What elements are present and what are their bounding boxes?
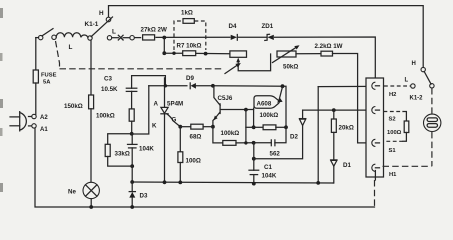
connector X mark between K1-1 and 27k	[118, 35, 123, 40]
svg-text:R7 10kΩ: R7 10kΩ	[177, 43, 202, 50]
svg-text:33kΩ: 33kΩ	[115, 151, 130, 158]
svg-text:L: L	[112, 29, 116, 36]
resistor 33k branch	[108, 134, 132, 145]
diode D3	[131, 182, 133, 192]
svg-text:G: G	[172, 117, 177, 124]
svg-text:20kΩ: 20kΩ	[339, 124, 354, 131]
resistor 100k (left chain)	[129, 109, 134, 121]
diode D1	[333, 132, 335, 160]
transistor C5J6	[214, 86, 220, 106]
svg-text:C1: C1	[264, 164, 272, 171]
wire top bus from K1-1 H contact to K1-2 H contact	[109, 6, 424, 68]
capacitor 562	[254, 142, 272, 144]
terminal H2	[372, 82, 376, 89]
wire D2 row	[252, 157, 256, 161]
wire K1-1 common down (neon branch)	[90, 40, 92, 95]
diode D9	[189, 83, 191, 89]
svg-text:H: H	[99, 10, 104, 17]
zener D2	[300, 118, 306, 120]
svg-text:C5J6: C5J6	[218, 95, 233, 102]
resistor 20k	[333, 110, 335, 119]
wire H2 feed row from ground riser	[318, 85, 372, 87]
svg-text:100Ω: 100Ω	[186, 158, 201, 165]
svg-text:A: A	[154, 101, 159, 108]
wire main live row y=37 from K1-1 L to block H2 feed	[134, 37, 140, 39]
inner ground bus y=182	[132, 182, 333, 183]
svg-text:100kΩ: 100kΩ	[221, 130, 240, 137]
potentiometer body (coupled)	[230, 51, 247, 57]
svg-text:10.5K: 10.5K	[101, 86, 118, 93]
resistor R7 10k	[183, 51, 196, 56]
svg-text:50kΩ: 50kΩ	[283, 64, 298, 71]
capacitor 104K (left chain)	[128, 143, 138, 145]
svg-text:D3: D3	[140, 193, 148, 200]
diode D4	[231, 35, 237, 40]
anode feed row with D9	[149, 85, 187, 87]
svg-text:100Ω: 100Ω	[387, 130, 402, 136]
svg-text:104K: 104K	[139, 146, 154, 153]
svg-text:100kΩ: 100kΩ	[96, 113, 115, 120]
switch K1-1	[106, 17, 111, 22]
top rail to A608 collector corner	[213, 86, 287, 128]
svg-text:H1: H1	[389, 172, 397, 178]
transistor A608	[254, 96, 279, 109]
svg-text:D9: D9	[186, 75, 194, 82]
svg-text:68Ω: 68Ω	[190, 134, 202, 141]
resistor 100 ohm (gate to ground)	[179, 127, 181, 152]
svg-text:H2: H2	[389, 92, 396, 98]
wire drop from main row to R7 row	[163, 38, 165, 54]
dashed H1 row to socket	[383, 165, 432, 167]
resistor 1k	[183, 19, 194, 24]
wire from 104K node up to anode row	[132, 86, 149, 134]
SCR 5P4M	[164, 78, 166, 108]
svg-text:ZD1: ZD1	[262, 23, 274, 30]
capacitor C3 10.5K	[132, 76, 166, 89]
resistor 100k (C5J6 base-emitter)	[213, 127, 223, 143]
svg-text:K1-1: K1-1	[85, 21, 99, 28]
connector block outline	[366, 78, 384, 177]
svg-text:5A: 5A	[43, 80, 51, 86]
svg-text:A608: A608	[257, 101, 272, 108]
terminal S2	[372, 107, 376, 114]
svg-text:1kΩ: 1kΩ	[181, 10, 193, 17]
svg-text:D2: D2	[290, 134, 298, 141]
resistor 100k (A608 base row)	[246, 126, 254, 128]
inductor L coil	[56, 33, 88, 38]
node A1	[32, 124, 36, 128]
resistor 150k	[89, 95, 94, 109]
svg-text:A1: A1	[40, 127, 48, 133]
neon lamp Ne	[83, 182, 99, 198]
wire H1 pin down to bottom bus	[374, 171, 376, 181]
svg-text:27kΩ 2W: 27kΩ 2W	[141, 27, 167, 34]
svg-text:A2: A2	[40, 115, 48, 121]
wire R7 row to potentiometer	[164, 52, 182, 54]
wire S2 row (D2 to S2 terminal)	[303, 109, 372, 111]
svg-text:K: K	[152, 123, 157, 130]
svg-text:L: L	[69, 44, 73, 51]
resistor 2.2k 1W	[321, 51, 333, 56]
switch K1-2	[421, 67, 425, 71]
svg-text:D4: D4	[229, 23, 237, 30]
potentiometer wiper arrow	[238, 54, 270, 71]
wire left vertical to fuse	[35, 38, 37, 70]
resistor 27k 2W	[143, 35, 155, 40]
node junction at 164,37.6	[162, 36, 166, 40]
svg-text:Ne: Ne	[68, 189, 76, 196]
mechanical link dashed from K1-1 to wiper	[56, 41, 60, 69]
svg-text:FUSE: FUSE	[41, 73, 57, 79]
wire 50k to 2.2k	[296, 53, 321, 55]
dashed optional branch box with 1k resistor	[174, 21, 183, 50]
gate resistor 68 ohm row	[178, 125, 182, 129]
capacitor C1 104K	[253, 143, 255, 170]
svg-text:S2: S2	[389, 117, 396, 123]
svg-text:D1: D1	[343, 162, 351, 169]
wire C5J6 base loop vertical	[245, 110, 247, 143]
svg-text:K1-2: K1-2	[410, 96, 424, 102]
scan artifacts at left edge	[0, 8, 3, 18]
terminal H1	[372, 164, 376, 171]
svg-text:L: L	[405, 78, 409, 84]
fuse FUSE 5A	[33, 70, 38, 83]
svg-text:100kΩ: 100kΩ	[260, 112, 279, 119]
svg-text:S1: S1	[389, 148, 397, 154]
dashed S2-100ohm-S1 heater sense loop	[384, 111, 404, 113]
heater socket symbol	[424, 114, 441, 131]
zener ZD1	[267, 35, 273, 40]
terminal S1	[372, 139, 376, 146]
svg-text:C3: C3	[104, 76, 112, 83]
mains plug	[10, 116, 20, 118]
svg-text:150kΩ: 150kΩ	[64, 103, 83, 110]
svg-text:104K: 104K	[262, 173, 277, 180]
wire 2.2k down to S1 terminal	[333, 54, 372, 143]
svg-text:H: H	[412, 61, 416, 67]
svg-text:562: 562	[270, 150, 281, 157]
svg-text:5P4M: 5P4M	[167, 101, 183, 108]
node A2	[32, 114, 36, 118]
left pole switch (mains)	[39, 35, 43, 39]
svg-text:2.2kΩ 1W: 2.2kΩ 1W	[315, 43, 343, 50]
wire A1 down to bottom bus	[35, 128, 375, 207]
rheostat 50k with diagonal arrow	[277, 51, 296, 57]
